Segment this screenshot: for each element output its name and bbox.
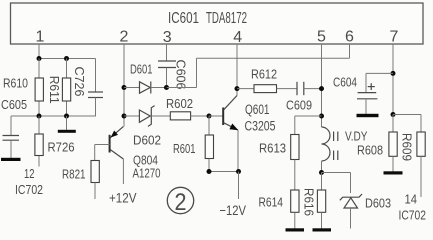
wire D602 anode segment [124,115,139,117]
wire R612 to C609 [277,88,298,90]
op-amp U1 : IC601 TDA8172 body box [11,3,424,44]
svg-text:TDA8172: TDA8172 [206,10,247,27]
wire Q601 emitter down [237,130,239,172]
svg-text:V.DY: V.DY [345,128,368,143]
transistor Q804 (PNP) emitter lead [110,127,123,138]
resistor R616 top lead [321,173,323,191]
ground row B [58,130,76,133]
capacitor C726 bottom lead [95,98,97,117]
wire ground row C605 to C726 [11,115,96,117]
wire node row from pin1 to C726 [39,58,96,60]
svg-text:C606: C606 [174,60,189,90]
wire pin5 stub [321,44,323,127]
svg-text:C3205: C3205 [245,119,276,134]
svg-text:R616: R616 [302,188,317,216]
svg-text:R612: R612 [251,67,277,82]
svg-text:R608: R608 [357,142,383,157]
node junction C606/D601 [164,85,169,90]
wire Q804 collector down to +12V [122,159,124,184]
node junction pin5/R613/coil [319,114,324,119]
svg-text:R614: R614 [259,194,284,209]
svg-text:R821: R821 [62,167,86,182]
wire emitter bottom row [209,171,239,173]
transistor Q601 emitter arrow [229,124,238,131]
wire D601 cathode segment [151,87,167,89]
capacitor C609 plates [296,82,298,95]
node junction pin7/C604 [391,71,396,76]
node junction emitter/-12V [236,169,241,174]
zener diode D602 [139,110,150,122]
wire D603 anode down [350,208,352,229]
capacitor C606 bottom lead [166,68,168,88]
resistor R601 top lead [208,116,210,135]
wire pin6 stub [349,44,351,58]
wire pin6 rail horizontal [197,57,350,59]
wire Q601 collector to pin4 [236,89,238,96]
wire junction to corner [167,87,197,89]
wire C604 branch [366,72,393,74]
svg-text:3: 3 [163,29,172,46]
svg-text:R610: R610 [3,76,28,91]
ground R614 [286,228,305,231]
resistor R613 body [291,135,299,160]
node junction D601 anode [122,85,127,90]
svg-text:IC702: IC702 [15,182,43,197]
svg-text:2: 2 [120,29,129,46]
resistor R821 body [91,161,99,183]
capacitor C604 top lead [365,73,367,92]
wire pin7 stub [392,44,394,115]
transistor Q601 collector lead [224,96,237,110]
resistor R609 top lead [420,115,422,133]
svg-text:Q601: Q601 [245,102,270,117]
node junction R610 bottom [37,114,42,119]
svg-text:2: 2 [175,189,187,216]
svg-text:IC601: IC601 [168,10,199,27]
resistor R611 body [62,78,70,101]
transistor Q601 base lead [209,115,223,117]
svg-text:C604: C604 [333,74,357,89]
ground R608 [384,171,403,174]
svg-text:4: 4 [233,29,242,46]
wire coil to bottom node [321,161,323,173]
wire pin1 stub [38,44,40,59]
ground R616 [313,228,332,231]
resistor R601 bottom lead [208,159,210,172]
resistor R610 leads [38,59,40,79]
resistor R611 leads [66,59,68,79]
capacitor C605 bottom lead [10,140,12,158]
wire bottom row to D603 [322,172,351,174]
zener diode D603 [340,194,362,200]
capacitor C605 plates [3,135,20,137]
capacitor C726 top lead [95,59,97,93]
inductor V.DY coil [322,127,331,161]
svg-text:+12V: +12V [109,191,137,206]
node junction R611 bottom [64,114,69,119]
svg-text:5: 5 [317,29,326,46]
svg-text:R611: R611 [47,76,62,104]
resistor R609 body [417,132,425,156]
svg-text:−12V: −12V [220,203,247,218]
svg-text:R602: R602 [166,96,193,111]
node junction R601 bottom [207,169,212,174]
svg-text:C726: C726 [72,67,87,97]
ground C605 [1,158,21,161]
transistor Q804 emitter arrow [111,131,118,138]
svg-text:7: 7 [390,29,399,46]
wire R609 branch [393,114,421,116]
wire drop to -12V [238,172,240,200]
svg-text:1: 1 [36,29,45,46]
resistor R608 top lead [392,115,394,133]
node junction R602/R601/Q601 base [207,114,212,119]
wire to R612 [237,88,254,90]
capacitor C726 plates [88,91,103,93]
wire D601 anode segment [124,87,140,89]
ground stub row B [66,116,68,130]
capacitor C606 plates [158,60,176,62]
svg-text:14: 14 [405,192,418,207]
capacitor C604 plates [358,92,377,94]
node junction pin4/R612 [235,86,240,91]
wire pin3 stub [166,44,168,61]
resistor R616 bottom lead [321,212,323,228]
svg-text:R609: R609 [400,133,415,161]
wire D603 drop [350,173,352,194]
svg-text:R613: R613 [259,141,286,156]
inductor core marks [333,132,335,142]
resistor R614 bottom lead [294,212,296,228]
svg-text:D601: D601 [130,61,153,76]
resistor R602 body [170,112,190,120]
transistor Q804 base bar [109,135,111,153]
svg-text:D603: D603 [365,195,391,210]
resistor R610 body [35,78,43,101]
resistor R616 body [317,190,325,212]
resistor R608 body [389,132,397,156]
wire R602 to base node [191,115,209,117]
capacitor C605 top lead [10,116,12,136]
resistor R609 bottom lead to pin 14 [420,156,422,197]
svg-text:D602: D602 [133,132,161,147]
transistor Q601 emitter lead [224,123,238,130]
svg-text:C609: C609 [286,98,312,113]
wire riser to pin6 rail [196,58,198,87]
resistor R613 top lead [294,116,296,135]
svg-text:R601: R601 [173,141,196,156]
ground C604 [357,114,379,117]
node junction pin5/R612/C609 [319,86,324,91]
svg-text:R726: R726 [48,140,75,155]
resistor R726 body [35,134,43,156]
transistor Q804 base lead [95,144,110,146]
resistor R608 bottom lead [392,156,394,171]
resistor R821 bottom lead [94,183,96,200]
resistor R614 body [291,190,299,212]
wire pin4 stub [236,44,238,89]
node circled 2 [167,187,193,213]
diode D601 [140,82,151,93]
wire base drop to R821 [94,145,96,161]
svg-text:A1270: A1270 [133,165,161,180]
transistor Q804 collector lead [110,150,123,159]
wire R613 branch [295,115,322,117]
svg-text:6: 6 [345,29,354,46]
node junction R611 top [64,56,69,61]
node junction D602 anode / Q804 [122,114,127,119]
node junction pin1/R610 [37,56,42,61]
svg-text:12: 12 [24,166,35,181]
resistor R726 leads [38,116,40,134]
wire pin2 stub [123,44,125,127]
node junction pin7/R608/R609 [391,112,396,117]
wire R613 to R614 [294,160,296,191]
capacitor C604 bottom lead [365,99,367,114]
capacitor C604 plus sign [368,86,375,88]
svg-text:C605: C605 [1,97,27,112]
resistor R612 body [254,85,277,93]
resistor R601 body [205,135,213,159]
svg-text:IC702: IC702 [399,208,427,223]
transistor Q601 base bar [222,108,224,126]
wire C609 to pin5 node [304,88,322,90]
node junction coil/R616/D603 [319,170,324,175]
wire D602 to R602 [151,115,170,117]
